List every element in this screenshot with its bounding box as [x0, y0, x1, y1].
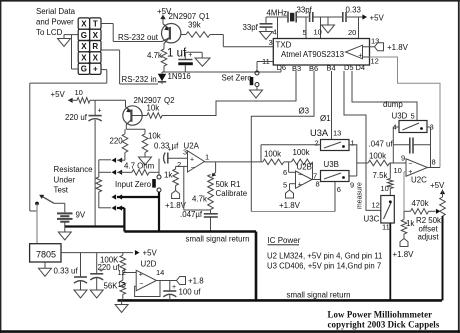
wire B4 phase 1 to U3A control: [320, 71, 332, 140]
svg-text:B3: B3: [292, 64, 301, 73]
wire U3B pin9: [349, 163, 357, 176]
svg-text:Low Power Milliohmmeter: Low Power Milliohmmeter: [328, 310, 433, 320]
svg-text:56K: 56K: [104, 282, 119, 291]
svg-text:+: +: [190, 157, 194, 164]
svg-text:copyright 2003 Dick Cappels: copyright 2003 Dick Cappels: [328, 320, 440, 330]
svg-text:Under: Under: [54, 176, 76, 185]
wire U2A inverting input: [176, 166, 188, 169]
svg-text:0.33 uf: 0.33 uf: [54, 267, 79, 276]
resistor 4.7k Q1: [147, 49, 167, 66]
svg-text:4.7k: 4.7k: [192, 195, 207, 204]
svg-text:0.33: 0.33: [346, 6, 362, 15]
potentiometer R2 50k offset: [416, 197, 445, 242]
wire LCD ground bus: [64, 35, 78, 69]
svg-text:X: X: [93, 53, 99, 62]
mcu U1 Atmel AT90S2313: [273, 39, 369, 66]
svg-text:10k: 10k: [148, 132, 161, 141]
switch S1 power: [35, 195, 65, 213]
wire U2C noninverting: [404, 172, 406, 212]
switch S2 set zero: [250, 71, 259, 90]
wire return rail upper: [124, 230, 256, 233]
svg-text:R: R: [92, 42, 98, 51]
svg-text:1k: 1k: [164, 171, 172, 180]
power +5V R2: [430, 181, 445, 197]
power +5V supply arrow: [346, 14, 384, 23]
label dump: [383, 100, 403, 109]
label IC Power: [268, 236, 301, 245]
svg-text:0.33 µf: 0.33 µf: [154, 142, 179, 151]
svg-text:X: X: [93, 31, 99, 40]
svg-text:33pf: 33pf: [297, 6, 313, 15]
wire Q1 collector junction: [163, 66, 165, 72]
label RS-232 in: [122, 75, 157, 84]
svg-text:X: X: [81, 42, 87, 51]
resistor 100K divider: [120, 253, 126, 271]
ground 220uf: [90, 290, 103, 298]
svg-text:10k: 10k: [147, 104, 160, 113]
svg-text:D6: D6: [277, 63, 287, 72]
svg-text:Serial Data: Serial Data: [36, 7, 76, 16]
resistor 56K divider: [120, 271, 126, 301]
wire U2A output: [205, 161, 263, 163]
battery 9V: [57, 211, 86, 227]
svg-text:2: 2: [315, 139, 319, 148]
svg-text:8: 8: [316, 180, 320, 189]
resistor 10k collector: [142, 132, 161, 153]
capacitor 100uf reference: [163, 281, 201, 301]
reference +1.8V offset: [393, 234, 415, 259]
svg-text:11: 11: [382, 223, 390, 232]
label U3D: [392, 112, 408, 121]
svg-text:5: 5: [411, 112, 415, 121]
label small signal return upper: [186, 235, 250, 244]
wire diode junction to MCU D6: [162, 70, 281, 73]
transistor Q2 2N2907 PNP: [123, 106, 147, 130]
svg-text:U3B: U3B: [324, 160, 339, 169]
ground 0.33uf: [74, 290, 87, 298]
svg-text:9: 9: [350, 181, 354, 190]
wire divider tap to U2D: [118, 268, 137, 277]
svg-text:100 uf: 100 uf: [179, 288, 202, 297]
wiper arrow R2: [429, 209, 441, 214]
label U3B: [324, 160, 339, 169]
svg-text:+5V: +5V: [370, 14, 385, 23]
svg-text:100k: 100k: [293, 148, 310, 157]
svg-text:10: 10: [75, 88, 83, 97]
wire U2D output: [157, 280, 177, 282]
svg-text:Atmel AT90S2313: Atmel AT90S2313: [281, 50, 345, 59]
svg-text:10: 10: [314, 28, 322, 37]
svg-text:1: 1: [205, 153, 209, 162]
svg-text:5: 5: [283, 181, 287, 190]
resistor 39k: [181, 21, 210, 38]
resistor 4.7k gain: [192, 191, 213, 209]
resistor 100k first: [263, 150, 284, 165]
svg-text:33pf: 33pf: [243, 23, 259, 32]
svg-text:20: 20: [348, 28, 356, 37]
svg-text:RS-232 in: RS-232 in: [122, 75, 157, 84]
capacitor 0.33 supply: [343, 6, 362, 23]
wire power switch to 7805: [36, 204, 38, 244]
wire pin20 vcc: [348, 17, 359, 39]
wire return rail lower: [118, 299, 443, 302]
svg-text:.047µf: .047µf: [180, 210, 203, 219]
ground 1uf: [195, 58, 210, 66]
wire RS-232 in: [120, 83, 158, 85]
reference +1.8 output: [177, 277, 205, 286]
svg-text:X: X: [81, 20, 87, 29]
svg-text:+1.8: +1.8: [188, 277, 204, 286]
svg-text:100k: 100k: [369, 152, 386, 161]
label 2N2907 Q2: [134, 96, 175, 105]
svg-text:1k: 1k: [406, 219, 414, 228]
svg-text:470k: 470k: [412, 199, 429, 208]
svg-text:220 uf: 220 uf: [65, 113, 88, 122]
svg-text:5: 5: [303, 28, 307, 37]
svg-text:−: −: [298, 172, 302, 179]
resistor 100k integrator: [368, 152, 390, 166]
reference +1.8V U2B: [279, 184, 301, 210]
wire pin5: [303, 17, 307, 39]
svg-text:U3 CD406, +5V pin 14,Gnd pin 7: U3 CD406, +5V pin 14,Gnd pin 7: [267, 262, 381, 271]
regulator 7805: [30, 244, 61, 262]
pin 12 label: [371, 57, 379, 66]
svg-text:220: 220: [110, 137, 124, 146]
connector J1 LCD header: [78, 18, 101, 75]
wire U2D feedback: [135, 281, 160, 297]
ground battery: [58, 227, 71, 241]
wire pin10 gnd: [314, 17, 322, 39]
svg-text:small signal return: small signal return: [186, 235, 250, 244]
wire 100k to U2B output: [312, 162, 321, 180]
wire 4.7 Ohm to input node: [149, 159, 159, 173]
wire 220 to force+: [124, 153, 126, 161]
svg-text:10: 10: [394, 166, 402, 175]
svg-text:14: 14: [156, 268, 164, 277]
svg-text:6: 6: [337, 185, 341, 194]
svg-text:U2A: U2A: [184, 142, 200, 151]
wire U3A pin2: [261, 145, 321, 162]
analog switch U3A: [315, 129, 355, 151]
ground 7805: [39, 262, 52, 276]
svg-text:U3D: U3D: [392, 112, 408, 121]
wire pin12 to integrator output: [370, 57, 441, 168]
svg-text:+: +: [98, 108, 102, 115]
svg-text:4.7k: 4.7k: [147, 51, 162, 60]
capacitor 33pf right: [297, 6, 343, 23]
comparator inside MCU: [346, 45, 370, 59]
wire 39k to MCU TXD pin 3: [210, 35, 273, 47]
svg-text:12: 12: [372, 201, 380, 210]
svg-text:G: G: [81, 31, 87, 40]
wire D5 measure net: [344, 71, 381, 210]
svg-text:measure: measure: [357, 182, 364, 209]
power +5V with 10 ohm: [51, 90, 78, 103]
resistor 10k Q2 base: [147, 104, 163, 119]
svg-text:6: 6: [283, 168, 287, 177]
svg-text:adjust: adjust: [418, 233, 440, 242]
svg-text:U2 LM324, +5V pin 4, Gnd pin 1: U2 LM324, +5V pin 4, Gnd pin 11: [267, 252, 382, 261]
wire Q2 collector node: [125, 129, 145, 134]
ground 33pf left: [260, 32, 273, 40]
svg-text:+: +: [358, 53, 362, 60]
wire RS-232 out to Q1 base: [113, 41, 162, 43]
analog switch U3C: [364, 196, 395, 232]
svg-text:U3A: U3A: [310, 128, 329, 138]
svg-text:50k R1: 50k R1: [216, 180, 241, 189]
svg-text:+1.8V: +1.8V: [279, 201, 301, 210]
pin labels MCU bottom: [277, 63, 366, 73]
potentiometer R1 50k calibrate: [208, 175, 248, 199]
label 1 uf: [167, 48, 187, 60]
svg-text:small signal return: small signal return: [287, 291, 351, 300]
wire 7805 output +5V: [61, 249, 157, 258]
wire integrator input: [390, 154, 407, 164]
svg-text:D5: D5: [344, 63, 354, 72]
svg-text:9V: 9V: [76, 211, 86, 220]
ground set zero: [250, 90, 263, 98]
svg-text:+5V: +5V: [430, 181, 445, 190]
analog switch U3D: [393, 112, 434, 133]
svg-text:2: 2: [177, 160, 181, 169]
label 100K: [100, 256, 119, 265]
svg-text:+: +: [93, 65, 98, 74]
svg-text:+1.8V: +1.8V: [393, 250, 415, 259]
label 56K: [104, 282, 119, 291]
connector arrows sense+: [112, 170, 133, 175]
capacitor 220uf node X: [65, 100, 102, 226]
capacitor 0.33uf input: [154, 142, 188, 164]
svg-text:U2C: U2C: [411, 176, 427, 185]
label 2N2907 Q1: [169, 12, 210, 21]
label U2 power pins: [267, 252, 382, 261]
label Serial Data and Power To LCD: [36, 7, 76, 37]
resistor 7.5k: [373, 163, 394, 189]
svg-text:13: 13: [371, 37, 379, 46]
svg-text:+: +: [188, 52, 192, 59]
label Input Zero: [115, 180, 152, 189]
svg-text:Test: Test: [54, 186, 69, 195]
svg-text:39k: 39k: [188, 21, 201, 30]
wire U3D pin4: [393, 127, 399, 163]
wire force+ stub: [99, 159, 111, 161]
svg-text:−: −: [139, 281, 143, 288]
ground return rail: [115, 300, 128, 312]
opamp U2B: [283, 163, 317, 190]
svg-text:+: +: [168, 147, 172, 154]
wire T pin to RS-232 out: [101, 24, 113, 42]
svg-text:−: −: [191, 165, 195, 172]
svg-text:Input Zero: Input Zero: [115, 180, 152, 189]
svg-text:Q2: Q2: [164, 96, 175, 105]
capacitor .047uf gain: [180, 210, 218, 232]
svg-text:7.5k: 7.5k: [373, 171, 388, 180]
wire U3C pin11 to return: [389, 223, 391, 300]
resistor 1k U2A: [164, 169, 178, 186]
svg-text:+: +: [172, 284, 176, 291]
svg-text:100K: 100K: [100, 256, 119, 265]
svg-text:Calibrate: Calibrate: [216, 189, 248, 198]
resistor 470k: [404, 199, 429, 214]
label Set Zero: [222, 74, 253, 83]
svg-text:8: 8: [432, 158, 436, 167]
wire U2C output pin8: [428, 158, 441, 168]
wire U3A pin1 to integrator: [349, 145, 368, 163]
svg-text:Ø1: Ø1: [320, 114, 331, 123]
svg-text:Resistance: Resistance: [54, 165, 94, 174]
switch S3 input zero: [152, 159, 161, 192]
svg-text:100k: 100k: [264, 150, 281, 159]
svg-text:dump: dump: [383, 100, 403, 109]
svg-text:12: 12: [371, 57, 379, 66]
reference +1.8V U2A: [165, 186, 187, 211]
wire B6 phase 3 net: [251, 71, 335, 212]
wire pin4: [273, 17, 278, 39]
svg-text:U2B: U2B: [297, 163, 312, 172]
wire + pin to power switch node: [30, 70, 107, 211]
svg-text:+: +: [139, 272, 143, 279]
svg-text:U3C: U3C: [364, 215, 380, 224]
ground 10k collector: [139, 153, 152, 166]
svg-text:4MHz: 4MHz: [267, 9, 288, 18]
svg-text:+1.8V: +1.8V: [387, 43, 409, 52]
wire return rail drop: [255, 232, 258, 301]
diode 1N916: [158, 72, 192, 84]
power +5V Q1 emitter: [157, 7, 172, 24]
connector arrows force+: [112, 158, 125, 163]
label U3 power pins: [267, 262, 381, 271]
label measure vertical: [357, 182, 364, 209]
resistor 10 ohm: [75, 88, 90, 103]
opamp U2A: [177, 142, 209, 173]
wire feedback tap: [212, 162, 217, 177]
svg-text:To LCD: To LCD: [36, 28, 63, 37]
connector arrows sense-: [112, 205, 125, 210]
capacitor 220uf output: [90, 253, 120, 290]
pin 3 label: [269, 38, 273, 47]
svg-text:−: −: [408, 161, 412, 168]
wire R pin to RS-232 in: [101, 50, 120, 84]
resistor under test bus: [96, 160, 102, 208]
wire feedback to pin2: [184, 166, 211, 213]
title Low Power Milliohmmeter: [328, 310, 440, 330]
svg-text:+5V: +5V: [143, 249, 158, 258]
svg-text:Set Zero: Set Zero: [222, 74, 253, 83]
analog switch U3B: [316, 171, 355, 195]
wire 7.5k to U3C: [381, 184, 391, 196]
svg-text:U2D: U2D: [141, 260, 157, 269]
wire sense- stub: [99, 207, 111, 209]
svg-text:Ø3: Ø3: [299, 107, 310, 116]
ground LCD connector: [58, 39, 71, 47]
svg-text:TXD: TXD: [276, 41, 292, 50]
svg-text:G: G: [81, 65, 87, 74]
capacitor 33pf left: [243, 17, 273, 32]
wire node X: [90, 100, 126, 107]
wire junction to U2B inverting: [283, 162, 296, 177]
svg-text:1: 1: [351, 139, 355, 148]
wire R2 to return rail: [442, 216, 444, 300]
svg-text:7805: 7805: [36, 250, 56, 260]
crystal 4MHz: [266, 12, 309, 23]
capacitor 0.33uf output: [54, 253, 88, 290]
wire B3 to Q2 base network: [162, 71, 296, 116]
svg-text:D4: D4: [356, 63, 366, 72]
svg-text:.047 uf: .047 uf: [369, 140, 394, 149]
resistor 100k second: [284, 148, 313, 165]
ground crystal net: [322, 17, 335, 33]
resistor 1k offset: [401, 211, 414, 234]
svg-text:4.7 Ohm: 4.7 Ohm: [124, 162, 155, 171]
svg-text:12: 12: [118, 268, 126, 277]
pin 11 set zero: [257, 57, 273, 71]
opamp U2D: [118, 260, 165, 291]
label phase 3: [299, 107, 310, 116]
wire input zero to return rail: [158, 192, 160, 232]
svg-text:IC Power: IC Power: [268, 236, 301, 245]
label U3A: [310, 128, 329, 138]
label Resistance Under Test: [54, 165, 94, 195]
pin 13 +1.8V reference: [370, 37, 409, 53]
label small signal return lower: [287, 291, 351, 300]
svg-text:3: 3: [269, 38, 273, 47]
transistor Q1 2N2907 PNP: [162, 24, 181, 50]
wire force- return: [123, 208, 125, 232]
svg-text:13: 13: [118, 280, 126, 289]
wire sense+ stub: [99, 171, 111, 173]
svg-text:10: 10: [381, 184, 389, 193]
label 4MHz: [267, 9, 288, 18]
svg-text:+: +: [298, 182, 302, 189]
svg-text:T: T: [93, 20, 98, 29]
svg-text:X: X: [81, 53, 87, 62]
svg-text:+5V: +5V: [51, 90, 66, 99]
svg-text:4: 4: [273, 28, 277, 37]
svg-text:1 uf: 1 uf: [167, 48, 187, 60]
svg-text:1N916: 1N916: [168, 72, 192, 81]
svg-text:13: 13: [333, 129, 341, 138]
label RS-232 out: [118, 33, 159, 42]
svg-text:9: 9: [401, 154, 405, 163]
svg-text:RS-232 out: RS-232 out: [118, 33, 159, 42]
connector arrows return: [112, 194, 160, 199]
capacitor .047uf integrator: [369, 138, 431, 154]
opamp U2C: [394, 159, 428, 185]
resistor 4.7 Ohm: [124, 162, 155, 176]
wire U3D pin3: [427, 127, 431, 168]
capacitor 1uf electrolytic: [178, 52, 202, 72]
resistor 220: [110, 134, 128, 153]
wire battery minus rail: [65, 225, 125, 227]
wire D4 dump net: [352, 71, 417, 121]
svg-text:and Power: and Power: [36, 18, 74, 27]
